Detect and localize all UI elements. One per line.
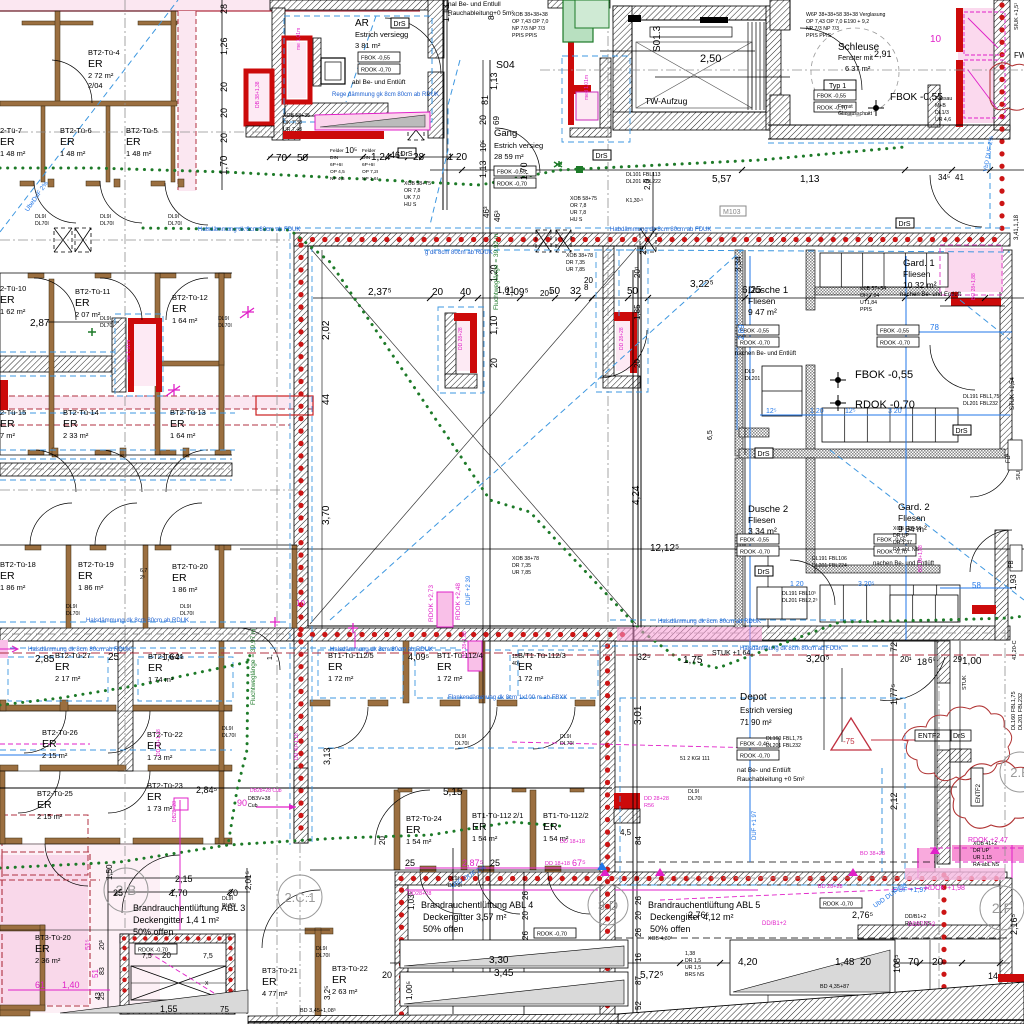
blue dashed row5 line [0, 749, 232, 751]
blue dashed row5 line right [318, 747, 598, 749]
svg-text:BD 3,45+1,08⁵: BD 3,45+1,08⁵ [300, 1007, 336, 1014]
hatched wall right bottom pier [937, 641, 950, 683]
svg-text:20: 20 [219, 82, 229, 92]
room label BT2-TU-13 [170, 408, 206, 440]
DrS box schleuse low [593, 150, 611, 160]
pink block above band [598, 388, 650, 406]
svg-text:2,37⁵: 2,37⁵ [368, 287, 392, 298]
svg-text:DR 7,35: DR 7,35 [566, 260, 585, 266]
svg-text:K1,30-⁵: K1,30-⁵ [626, 198, 643, 204]
svg-text:20: 20 [378, 836, 387, 845]
red niche frame hall left right [470, 313, 477, 373]
M103 box [720, 206, 746, 216]
wall brown row1b vert a [41, 106, 45, 182]
DrS box right mid [755, 448, 773, 458]
svg-text:RA-abL NS: RA-abL NS [893, 547, 920, 553]
svg-text:1,13: 1,13 [800, 174, 820, 185]
red dot column fire wall center [605, 646, 610, 1020]
dim line y170 [430, 169, 1024, 171]
svg-text:50% offen: 50% offen [650, 924, 690, 934]
svg-text:DL191 FBL106: DL191 FBL106 [812, 556, 847, 562]
svg-text:DL70I: DL70I [316, 953, 330, 959]
magenta panel schleuse lines [964, 12, 1005, 118]
small spec text cluster 17 [893, 526, 922, 553]
svg-text:75: 75 [220, 1005, 229, 1014]
dark red dashed border BT3 room [2, 852, 90, 1006]
svg-text:FBOK -0,46: FBOK -0,46 [740, 742, 769, 748]
door sill row2 top 1 [28, 273, 44, 278]
svg-text:50: 50 [627, 286, 639, 297]
svg-text:40⁵: 40⁵ [512, 661, 520, 667]
grey wedge BT3 bottom [60, 990, 248, 1013]
door sill BT2-24 bottom 1 [420, 866, 436, 872]
wall brown row3 vert d [292, 545, 297, 628]
svg-text:Gang: Gang [494, 128, 517, 139]
wall brown row1 floor [0, 101, 177, 106]
svg-text:BT3-Tü-20: BT3-Tü-20 [35, 933, 71, 942]
svg-text:OP 7,43 OP 7,0 E190 + 9,2: OP 7,43 OP 7,0 E190 + 9,2 [806, 19, 869, 25]
schleuse dashed circle [811, 28, 899, 116]
svg-text:DL201 FBL222: DL201 FBL222 [626, 179, 661, 185]
grey ramp wedge right [733, 950, 890, 992]
green small rect top [575, 0, 609, 28]
svg-text:UR 1,37: UR 1,37 [893, 540, 912, 546]
door sill row3 top 2 [90, 545, 106, 550]
svg-text:1 86 m²: 1 86 m² [0, 583, 26, 592]
checker wall gard1 pier low [806, 365, 815, 457]
small spec text cluster 30 [455, 734, 469, 747]
room label Depot [740, 692, 792, 727]
axis horizontal y240 [0, 239, 290, 241]
svg-text:FBOK -0,55: FBOK -0,55 [880, 329, 909, 335]
svg-text:BT1-Tü-112/2: BT1-Tü-112/2 [543, 811, 589, 820]
grey ramp box bottom center b [400, 972, 628, 1006]
svg-text:FBOK -0,55: FBOK -0,55 [740, 538, 769, 544]
door sill BT1 row 4 [497, 700, 517, 706]
fire wall horizontal bottom [395, 872, 1007, 885]
small spec text cluster 32 [448, 876, 462, 889]
dark red dashed bottom rooms [0, 879, 100, 881]
svg-text:46³: 46³ [493, 210, 502, 222]
svg-text:BT2-Tü-20: BT2-Tü-20 [172, 562, 208, 571]
svg-text:2 72 m²: 2 72 m² [88, 71, 114, 80]
svg-text:STUK +1,54: STUK +1,54 [1010, 376, 1016, 410]
svg-text:RDOK -0,70: RDOK -0,70 [740, 341, 770, 347]
label Felder [330, 148, 345, 182]
svg-text:DD57/7+2: DD57/7+2 [908, 922, 936, 928]
grey ramp wedge a [404, 946, 624, 966]
svg-text:1,55: 1,55 [160, 1004, 178, 1014]
svg-text:DL70I: DL70I [168, 221, 182, 227]
damper symbol corridor left b [75, 228, 91, 252]
DrS box right low [755, 566, 773, 576]
svg-text:-75: -75 [843, 737, 855, 746]
svg-text:DD 28+28: DD 28+28 [458, 327, 464, 350]
svg-text:DB28+28: DB28+28 [172, 801, 178, 822]
svg-text:DL70I: DL70I [100, 221, 114, 227]
svg-text:RDOK -0,70: RDOK -0,70 [740, 550, 770, 556]
svg-text:Typ 1: Typ 1 [829, 83, 846, 90]
red dot row fire wall mid [300, 632, 630, 637]
dark red dashed line corridor top [0, 395, 314, 397]
svg-text:1,50: 1,50 [105, 864, 114, 880]
svg-text:ER: ER [60, 136, 75, 148]
svg-text:Fliesen: Fliesen [748, 296, 776, 306]
magenta triangle marker a [600, 868, 610, 876]
wall brown row6 floor b [45, 838, 120, 844]
small spec text cluster 22 [180, 604, 194, 617]
svg-text:RDOK -0,70: RDOK -0,70 [537, 932, 567, 938]
magenta pink vertical right [917, 848, 919, 878]
svg-text:DrS: DrS [899, 221, 911, 228]
svg-text:ER: ER [0, 294, 15, 306]
hatched wall AR mid band [285, 103, 388, 116]
svg-text:RDOK +2,47: RDOK +2,47 [968, 837, 1008, 844]
door arc room r1b a [34, 181, 76, 223]
svg-text:DL201 FBL224: DL201 FBL224 [812, 563, 847, 569]
svg-text:ER: ER [437, 661, 452, 673]
svg-text:3 81 m²: 3 81 m² [355, 41, 381, 50]
checker wall gard1 band [815, 287, 940, 295]
svg-text:DL9I: DL9I [560, 734, 571, 740]
right edge box a [1008, 440, 1022, 470]
svg-text:Rauchableitung+0 5m²: Rauchableitung+0 5m² [448, 10, 514, 17]
svg-text:ER: ER [0, 570, 15, 582]
wall brown row2 right vert [219, 273, 224, 455]
svg-text:32⁵: 32⁵ [637, 652, 651, 662]
elevator hatched ring bottom [613, 112, 781, 130]
svg-text:25: 25 [113, 888, 123, 898]
svg-text:Halsdämmung dk 8cm 80cm ab FD: Halsdämmung dk 8cm 80cm ab FDUK [198, 227, 300, 233]
svg-text:NP 1,6I: NP 1,6I [362, 176, 378, 182]
svg-text:STUK: STUK [962, 675, 968, 690]
grey ramp big bottom right [618, 982, 1024, 1024]
svg-text:nachen Be- und Entlüft: nachen Be- und Entlüft [735, 351, 796, 357]
small spec text cluster 9 [860, 286, 886, 313]
black base line bottom [248, 1020, 1024, 1022]
svg-text:DL9I: DL9I [100, 316, 111, 322]
svg-text:10⁵: 10⁵ [479, 140, 488, 152]
wall brown BT2-24 vert c [530, 790, 536, 870]
Brandrauch ABL5 text [648, 900, 760, 934]
vertical line x842 depot [841, 668, 843, 742]
red niche row2-red box outline [256, 396, 313, 415]
svg-text:DR UP: DR UP [973, 848, 990, 854]
blue triangle marker [597, 862, 607, 870]
hatch block below left niche [246, 126, 274, 137]
svg-text:Deckengitter 3,57 m²: Deckengitter 3,57 m² [423, 912, 507, 922]
dim line y157 [268, 156, 460, 158]
magenta vertical dim right [1011, 845, 1013, 878]
svg-text:1,77⁵: 1,77⁵ [889, 683, 899, 705]
svg-text:DD/B1+2: DD/B1+2 [905, 914, 926, 920]
svg-text:UR 1,15: UR 1,15 [973, 855, 992, 861]
door sill BT2-24 top 2 [448, 788, 462, 792]
svg-text:58: 58 [972, 581, 981, 590]
svg-text:5,57: 5,57 [712, 174, 732, 185]
svg-text:2 36 m²: 2 36 m² [35, 956, 61, 965]
blue dashed row3 right [610, 619, 862, 621]
wall line top y77 [655, 76, 790, 78]
svg-text:1 72 m²: 1 72 m² [437, 674, 463, 683]
svg-text:1 86 m²: 1 86 m² [78, 583, 104, 592]
svg-text:NP 4,5: NP 4,5 [330, 176, 345, 182]
svg-text:UR 7,85: UR 7,85 [566, 267, 585, 273]
svg-text:26: 26 [521, 891, 530, 900]
small spec text cluster 26 [100, 214, 114, 227]
axis vertical x277 [276, 233, 278, 1024]
ABL3 grille inner line [131, 982, 226, 984]
fire wall corridor row3 left part [0, 628, 294, 641]
svg-text:RDOK +2,48: RDOK +2,48 [455, 583, 462, 620]
svg-text:M103: M103 [723, 209, 741, 216]
room label BT1-112-5 [328, 651, 374, 683]
hatched wall top band AR room [270, 0, 448, 10]
svg-text:28 59 m²: 28 59 m² [494, 152, 524, 161]
red bench gard2 [972, 605, 996, 614]
axis horizontal y634 right [640, 632, 1005, 634]
svg-text:3,22⁵: 3,22⁵ [690, 279, 714, 290]
svg-text:me 1,01m: me 1,01m [126, 340, 132, 362]
svg-text:12,12⁵: 12,12⁵ [650, 543, 679, 554]
door arc BT2-24 [420, 872, 462, 914]
svg-text:DIN: DIN [362, 155, 371, 161]
hatched wall schleuse left bottom [770, 95, 790, 130]
svg-text:2,87: 2,87 [30, 318, 50, 329]
svg-text:51 2 KGI 111: 51 2 KGI 111 [680, 756, 710, 762]
svg-text:25: 25 [490, 858, 500, 868]
blue dashed line top band low left [424, 249, 600, 251]
blue dashed vert right of gang [618, 250, 620, 316]
door arc room4 top [52, 60, 92, 103]
room label Dusche 1 [748, 285, 788, 317]
line y930 BT3 [0, 929, 330, 931]
svg-text:1,26: 1,26 [219, 37, 229, 55]
elevator car outline [636, 42, 752, 108]
room label Schleuse [838, 42, 880, 73]
svg-text:DL201 FBL2,2⁵: DL201 FBL2,2⁵ [782, 598, 818, 604]
door arc row2 c [166, 278, 208, 320]
door jamb row2 bottom 3 [183, 448, 189, 457]
wall brown row2 mid wall [160, 361, 224, 366]
small spec text cluster 31 [560, 734, 574, 747]
wall brown BT3 vert a [40, 925, 45, 1010]
wall brown row1 vert b [171, 11, 176, 103]
svg-text:3,13: 3,13 [322, 747, 332, 765]
door arc row2 b [100, 278, 142, 320]
svg-text:BT3-Tü-21: BT3-Tü-21 [262, 966, 298, 975]
room label BT1-112-2 [543, 811, 589, 843]
blue solid line y585 right [940, 587, 1012, 589]
svg-text:Estrich versieg: Estrich versieg [494, 141, 543, 150]
blue dashed line top band [195, 227, 1010, 229]
svg-text:1 48 m²: 1 48 m² [126, 149, 152, 158]
blue dashed rect niche hall left [438, 307, 484, 393]
svg-text:DL9I: DL9I [168, 214, 179, 220]
room label BT2-TU-21 [148, 652, 184, 684]
red bar bottom right [998, 974, 1024, 982]
svg-text:3.D: 3.D [598, 898, 618, 913]
door arc gard1 entry [930, 345, 975, 390]
svg-text:Brandrauchentlüftung ABL 5: Brandrauchentlüftung ABL 5 [648, 900, 760, 910]
svg-text:ER: ER [0, 136, 15, 148]
door arc BT1-112-2 [548, 872, 590, 914]
svg-text:OR 7,8: OR 7,8 [404, 188, 421, 194]
svg-text:UR 7,85: UR 7,85 [512, 570, 531, 576]
svg-text:DL70I: DL70I [180, 611, 194, 617]
dim line y938 right [615, 937, 1010, 939]
svg-text:UK 7,0: UK 7,0 [404, 195, 420, 201]
Brandrauch ABL4 text [421, 900, 533, 934]
magenta dashed pink band right [930, 847, 1024, 849]
door arc BT2-112-1 [478, 872, 520, 914]
damper symbol top band b [556, 230, 571, 252]
hatched wall right edge lower [1000, 878, 1012, 996]
wall brown row1b vert c [171, 106, 175, 182]
DrS box right a [896, 218, 914, 228]
svg-text:Glasausschnitt: Glasausschnitt [838, 111, 873, 117]
DrS box right mid2 [953, 425, 971, 435]
grey ramp box right [730, 940, 895, 995]
svg-text:4,20: 4,20 [738, 957, 758, 968]
FBOK RDOK boxes Schleuse [814, 90, 856, 112]
svg-text:ER: ER [63, 418, 78, 430]
dark red dashed corridor edge right [195, 11, 197, 190]
hatched wall Gang right pier upper [428, 0, 444, 58]
svg-text:ER: ER [35, 943, 50, 955]
svg-text:FBOK -0,55: FBOK -0,55 [855, 369, 913, 381]
magenta rect niche mid [437, 592, 453, 627]
svg-text:DB3V+38: DB3V+38 [248, 796, 270, 802]
svg-text:nachen Be- und Entlüft: nachen Be- und Entlüft [873, 561, 934, 567]
red door panel AR inner pink [288, 42, 306, 98]
svg-text:DL70I: DL70I [218, 323, 232, 329]
svg-text:12⁵: 12⁵ [845, 408, 856, 415]
door arc depot [880, 657, 945, 700]
svg-text:Fluchtweglänge = 39,92 m: Fluchtweglänge = 39,92 m [493, 234, 500, 310]
small spec text cluster 37 [648, 936, 672, 942]
red door panel gang [576, 92, 598, 120]
svg-text:BT2-Tü-12: BT2-Tü-12 [172, 293, 208, 302]
svg-text:Deckengitter 1,4 1 m²: Deckengitter 1,4 1 m² [133, 915, 219, 925]
blue solid line y415 [760, 414, 1010, 416]
red bar below AR [283, 131, 384, 139]
wall brown row4 jamb b [60, 700, 68, 711]
magenta diagonal bottom left [512, 742, 760, 748]
hatched block right of pier [950, 749, 971, 762]
wall brown BT3 floor b [0, 1005, 45, 1011]
svg-text:nal Be- und Entlull: nal Be- und Entlull [448, 1, 501, 8]
svg-text:UR 7,43: UR 7,43 [283, 127, 302, 133]
room label AR [355, 18, 408, 50]
wall brown row2 right boundary [219, 273, 224, 365]
grey ramp wedge b [404, 980, 624, 1004]
svg-text:DL9I: DL9I [180, 604, 191, 610]
svg-text:X: X [205, 981, 209, 987]
blue dashed row2b bottom [0, 449, 235, 451]
svg-text:Fenster mit: Fenster mit [838, 55, 873, 62]
svg-text:ER: ER [147, 791, 162, 803]
svg-text:med 1,01m: med 1,01m [584, 75, 590, 100]
svg-text:1 62 m²: 1 62 m² [0, 307, 26, 316]
door jamb row2 bottom 1 [52, 448, 58, 457]
svg-text:1,70: 1,70 [519, 162, 529, 180]
svg-text:78: 78 [930, 323, 939, 332]
small spec text cluster 23 [218, 316, 232, 329]
svg-text:HU S: HU S [404, 202, 417, 208]
door sill row1b 1 [20, 181, 34, 186]
svg-text:Fliesen: Fliesen [903, 269, 931, 279]
wall brown row1 top a [22, 21, 93, 25]
hatched wall top center [548, 0, 610, 8]
axis horizontal y132 [0, 131, 280, 133]
door arc AR [385, 18, 441, 74]
door arc row4 a [24, 711, 66, 753]
small spec text cluster 19 [680, 756, 710, 762]
ABL3 shaft hatched border right [226, 934, 235, 1014]
svg-text:Estrich versieg: Estrich versieg [740, 706, 792, 715]
blue dashed horizontal y143 [768, 142, 990, 144]
svg-text:14: 14 [988, 971, 998, 981]
svg-text:26: 26 [521, 931, 530, 940]
ABL3 shaft hatched border left [120, 934, 129, 1014]
room label BT2-TU-23 [147, 781, 183, 813]
pink overlay band right [759, 868, 761, 870]
blue dashed corridor row2 stub b [0, 375, 112, 377]
door sill BT1 row 1 [310, 700, 330, 706]
magenta panel top right [958, 8, 1010, 123]
magenta dim 61-140 [8, 989, 110, 991]
wall brown row4 floor right [133, 705, 232, 711]
green dotted escape route upper [0, 147, 905, 185]
red door lintel gang [569, 85, 591, 94]
svg-text:70: 70 [276, 153, 288, 164]
hall diagonal 2 [310, 248, 636, 624]
svg-text:BT3-Tü-22: BT3-Tü-22 [332, 964, 368, 973]
blue dashed diagonal AR [346, 16, 376, 102]
red wall gard1 vertical [951, 250, 958, 302]
svg-text:BT2-Tü-22: BT2-Tü-22 [147, 730, 183, 739]
svg-text:S04: S04 [496, 59, 515, 71]
DrS box AR [391, 18, 409, 28]
door arc row5 a [18, 771, 60, 813]
svg-text:2,85: 2,85 [35, 654, 55, 665]
damper symbol AR wall [408, 120, 424, 140]
blue dashed rect schleuse door [562, 56, 630, 142]
dim line y863 dashed right [615, 861, 935, 863]
axis vertical x300 bottom [299, 843, 301, 1024]
hatched pier 2C1 area [294, 842, 308, 844]
svg-text:Brandrauchentlüftung ABL 4: Brandrauchentlüftung ABL 4 [421, 900, 533, 910]
left room divider x0 row2 [0, 273, 1, 455]
svg-text:1,13: 1,13 [478, 160, 488, 178]
nat text top right [448, 1, 514, 17]
svg-text:RDOK -0,70: RDOK -0,70 [497, 182, 527, 188]
svg-text:1 72 m²: 1 72 m² [328, 674, 354, 683]
svg-text:me 1,01m: me 1,01m [296, 28, 302, 50]
red triangle -75 [831, 718, 871, 750]
svg-text:DUF +1 97: DUF +1 97 [752, 810, 758, 840]
red line triangle to cloud [871, 739, 915, 741]
door arc 2C1 c [375, 790, 430, 845]
hatched pier row2 [112, 318, 126, 392]
red wall schleuse right a [956, 8, 963, 52]
svg-text:DUF +2 39: DUF +2 39 [466, 575, 472, 605]
damper symbol top band a [536, 230, 551, 252]
svg-text:4,09⁵: 4,09⁵ [408, 652, 430, 662]
svg-text:BT2-Tü-11: BT2-Tü-11 [75, 287, 110, 296]
hatched wall right mid [1000, 250, 1012, 455]
